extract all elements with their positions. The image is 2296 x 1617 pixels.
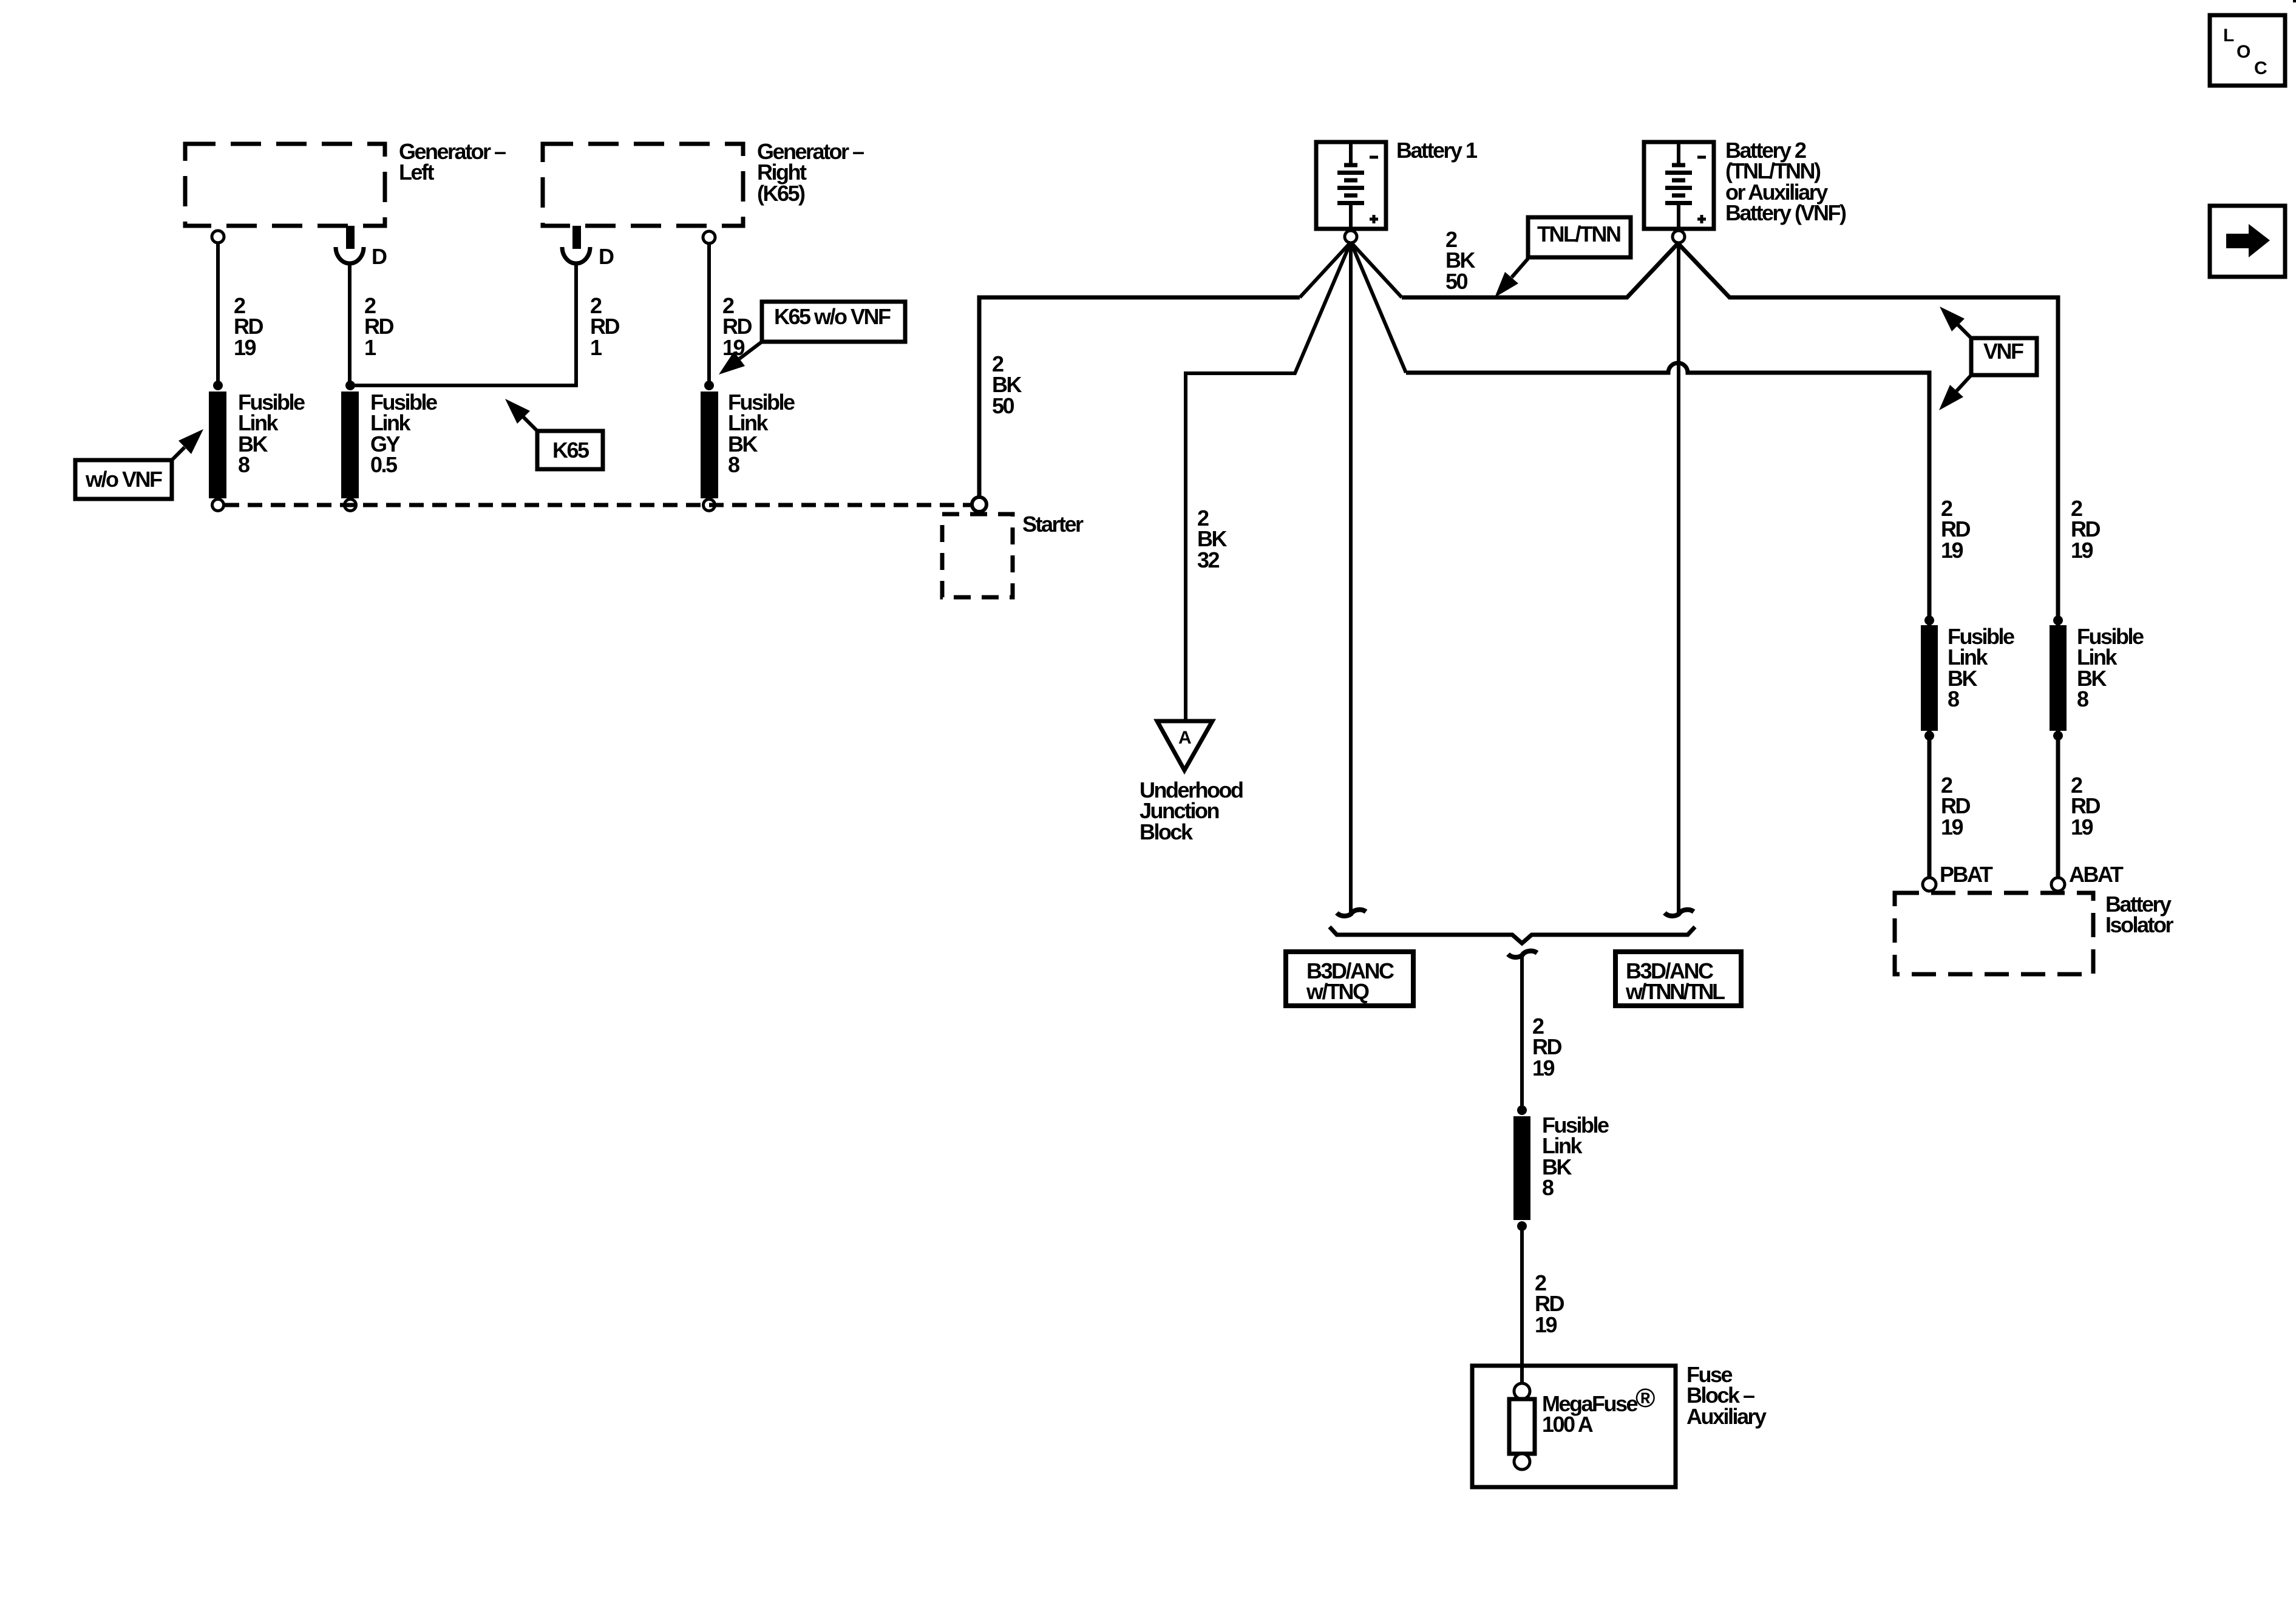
wire label 2 RD 19 (PBAT lower) [1941,773,1970,839]
svg-text:50: 50 [992,393,1014,418]
VNF flag text [1983,339,2023,364]
TNL/TNN flag text [1537,222,1620,246]
dashed starter feed bus [225,503,971,507]
wire label 2 BK 50 (battery bus) [1445,227,1475,294]
fuse block auxiliary label [1686,1362,1767,1429]
generator right box (K65) [543,144,743,226]
generator left label [399,139,506,185]
wire label 2 BK 50 (starter) [992,351,1022,418]
generator left terminal [212,231,224,243]
megafuse value label [1542,1391,1638,1437]
triangle letter A [1178,728,1191,748]
wire label 2 RD 19 (gen right outer) [722,293,752,360]
svg-text:19: 19 [1532,1056,1555,1080]
fusible link F1 (gen left outer) [209,381,226,511]
svg-text:50: 50 [1445,269,1468,294]
K65 flag box [537,431,603,469]
wire generator-right to fusible link [707,244,711,384]
fusible link F6 label [2077,624,2144,711]
B3D/ANC w/TNN/TNL box [1615,952,1741,1006]
fusible link F4 label [1542,1113,1609,1200]
K65 w/o VNF flag box [762,302,905,342]
starter label [1022,512,1084,537]
battery 2 label [1725,138,1846,225]
VNF arrow upper [1940,307,1971,338]
svg-text:(K65): (K65) [757,181,805,206]
pin D label left [372,244,387,269]
wire D-left down [348,263,352,384]
svg-text:1: 1 [590,335,602,360]
ABAT terminal [2051,878,2065,891]
wire label 2 BK 32 [1197,506,1227,572]
svg-text:A: A [1178,728,1191,748]
battery2 center wire down [1677,242,1680,913]
generator right D pin stub [562,226,590,263]
battery 1 terminal [1345,231,1357,243]
generator right label [757,139,864,206]
battery2 wire end hook [1665,910,1694,916]
svg-text:Left: Left [399,160,435,185]
svg-text:C: C [2254,58,2267,78]
battery2 right diagonal and bus to ABAT [1678,243,2058,878]
underhood junction block triangle A [1157,721,1212,770]
center wire to megafuse [1520,1226,1524,1386]
fusible link F3 (gen right) [701,381,718,511]
svg-text:VNF: VNF [1983,339,2023,364]
wire generator-left to fusible link [216,243,220,384]
page corner tick [2293,0,2296,2]
wire label 2 RD 19 (center upper) [1532,1014,1561,1080]
generator left D pin stub [336,226,364,263]
svg-text:8: 8 [1542,1175,1554,1200]
svg-text:1: 1 [364,335,376,360]
svg-text:Isolator: Isolator [2105,912,2174,937]
K65 arrow [505,399,538,432]
svg-text:19: 19 [1535,1312,1557,1337]
battery 1 label [1396,138,1478,163]
svg-text:K65 w/o VNF: K65 w/o VNF [774,304,891,329]
starter terminal [972,497,987,512]
battery 2 terminal [1673,231,1685,243]
fusible link F4 (center) [1513,1105,1530,1231]
node ABAT [2069,862,2124,887]
svg-text:32: 32 [1197,547,1220,572]
pin D label right [599,244,614,269]
wire label 2 RD 19 (gen left outer) [234,293,263,360]
B3D/ANC w/TNN/TNL text [1625,958,1725,1004]
K65 w/o VNF flag text [774,304,891,329]
battery1 fan wire to VNF bus [1351,242,1406,373]
fusible link F1 label [238,390,305,477]
wire label 2 RD 19 (center lower) [1535,1270,1564,1337]
svg-text:®: ® [1635,1383,1655,1413]
LOC letter L [2223,25,2234,46]
LOC letter C [2254,58,2267,78]
svg-text:19: 19 [2071,815,2093,839]
svg-text:19: 19 [1941,538,1963,563]
PBAT terminal [1923,878,1936,891]
wire label 2 RD 19 (ABAT upper) [2071,496,2100,563]
svg-text:100 A: 100 A [1542,1412,1594,1437]
svg-text:TNL/TNN: TNL/TNN [1537,222,1620,246]
wire label 2 RD 1 (gen left D) [364,293,393,360]
wire starter to bus [979,297,1300,497]
battery 2 [1644,142,1714,229]
fusible link F2 label [370,390,437,477]
next-page arrow box [2210,206,2285,277]
svg-text:K65: K65 [552,438,589,463]
wire label 2 RD 1 (gen right D) [590,293,619,360]
B3D/ANC w/TNQ box [1286,952,1413,1006]
battery1 wire end hook [1337,910,1366,916]
svg-text:Block: Block [1140,819,1194,844]
svg-text:Auxiliary: Auxiliary [1686,1404,1767,1429]
VNF bus with hop over battery2 wire [1406,363,1929,878]
svg-text:Battery 1: Battery 1 [1396,138,1478,163]
svg-text:w/o VNF: w/o VNF [85,467,162,492]
LOC letter O [2237,42,2250,62]
megafuse symbol [1509,1383,1535,1470]
w/o VNF flag text [85,467,162,492]
svg-text:19: 19 [2071,538,2093,563]
w/o VNF arrow [171,429,203,461]
wire label 2 RD 19 (PBAT upper) [1941,496,1970,563]
svg-text:w/TNN/TNL: w/TNN/TNL [1625,979,1725,1004]
svg-text:O: O [2237,42,2250,62]
fusible link F5 label [1948,624,2014,711]
svg-text:Battery (VNF): Battery (VNF) [1725,200,1846,225]
svg-text:PBAT: PBAT [1940,862,1993,887]
fusible link F2 (gen left D) [341,381,359,511]
wire label 2 RD 19 (ABAT lower) [2071,773,2100,839]
svg-text:8: 8 [2077,686,2088,711]
svg-text:8: 8 [1948,686,1959,711]
K65 flag text [552,438,589,463]
svg-text:D: D [372,244,387,269]
svg-text:Starter: Starter [1022,512,1084,537]
battery1 fan wire to TNL bus [1351,242,1402,297]
node PBAT [1940,862,1993,887]
fusible link F5 (PBAT) [1921,615,1938,741]
battery1 fan wire to junction block [1186,242,1351,721]
w/o VNF flag box [75,460,172,499]
TNL/TNN arrow [1495,259,1528,297]
starter box [942,514,1013,597]
B3D/ANC w/TNQ text [1306,958,1394,1004]
battery isolator box [1895,893,2093,974]
LOC legend box [2210,15,2285,86]
fusible link F3 label [728,390,795,477]
battery1 center wire down [1349,242,1353,913]
fuse block auxiliary box [1472,1366,1676,1487]
svg-text:19: 19 [1941,815,1963,839]
TNL/TNN flag box [1528,217,1631,257]
fusible link F6 (ABAT) [2050,615,2067,741]
K65 w/o VNF arrow [719,342,762,375]
battery isolator label [2105,892,2174,937]
VNF arrow lower [1939,375,1971,410]
registered trademark mark [1635,1383,1655,1413]
underhood junction block label [1140,778,1243,844]
svg-text:w/TNQ: w/TNQ [1306,979,1369,1004]
svg-text:0.5: 0.5 [370,452,398,477]
generator right terminal [703,231,715,243]
TNL bus right segment [1402,243,1678,297]
wire D-right down and across (K65) [350,263,576,385]
svg-text:8: 8 [238,452,250,477]
svg-text:D: D [599,244,614,269]
svg-text:19: 19 [234,335,256,360]
center wire start hook [1508,951,1537,957]
battery1 fan wire to starter bus [1300,242,1351,297]
VNF flag box [1971,338,2037,375]
generator left box [185,144,385,226]
svg-text:8: 8 [728,452,739,477]
svg-text:L: L [2223,25,2234,46]
center wire down to fusible link [1520,955,1524,1111]
svg-text:ABAT: ABAT [2069,862,2124,887]
battery 1 [1316,142,1386,229]
options brace [1330,927,1695,943]
